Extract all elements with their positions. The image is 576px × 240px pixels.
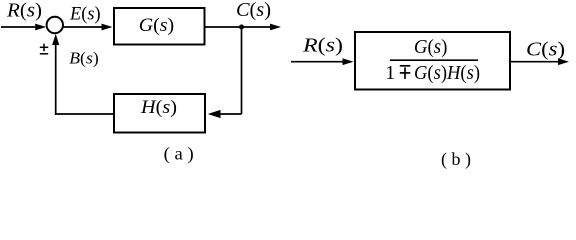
label plus-minus at summing junction [40,44,48,54]
svg-text:C(s): C(s) [236,0,271,21]
label C(s) output (a) [236,0,271,21]
svg-text:G(s): G(s) [139,16,174,36]
svg-text:G(s): G(s) [414,36,448,58]
svg-text:( b ): ( b ) [441,149,471,170]
wire H(s) to left [55,113,114,115]
label R(s) input (a) [6,1,42,22]
wire up to summing junction [52,34,59,115]
wire input to summing junction [1,24,46,31]
block closed-loop transfer function [355,32,510,90]
wire summing junction to G(s) [63,24,112,31]
label C(s) output (b) [526,38,565,60]
block G1 G(s) [114,8,205,45]
block H1 H(s) [114,94,205,133]
caption ( b ) [441,149,471,170]
denominator 1 minus-plus G(s)H(s) [385,62,480,84]
label B(s) feedback signal [69,48,99,67]
svg-text:G(s)H(s): G(s)H(s) [414,62,480,84]
svg-text:B(s): B(s) [69,48,99,67]
wire into H(s) [208,110,242,118]
svg-text:E(s): E(s) [69,5,100,25]
wire input to closed-loop block [291,58,354,65]
label E(s) [69,5,100,25]
caption ( a ) [164,144,194,165]
wire node down [241,27,243,114]
svg-text:H(s): H(s) [140,98,177,118]
label R(s) input (b) [302,35,343,57]
svg-text:( a ): ( a ) [164,144,194,165]
svg-text:1: 1 [385,62,395,84]
wire G(s) to output [206,24,282,31]
svg-text:C(s): C(s) [526,38,565,60]
node junction dot [239,25,244,30]
wire closed-loop block to output [511,58,569,65]
numerator G(s) [414,36,448,58]
fraction bar [390,59,478,61]
summing junction [47,17,63,33]
svg-text:R(s): R(s) [302,35,343,57]
svg-text:R(s): R(s) [6,1,42,22]
